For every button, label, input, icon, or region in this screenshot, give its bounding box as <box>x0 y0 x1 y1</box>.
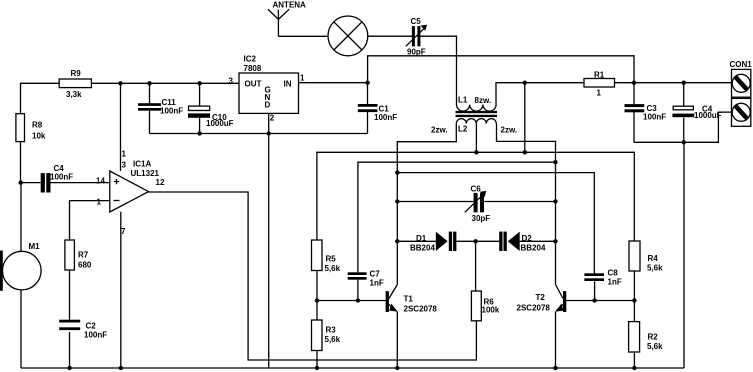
resistor R1 <box>584 70 615 97</box>
wire 7808 pin1 to IN node <box>299 82 368 84</box>
wire opamp top pins <box>120 83 122 171</box>
svg-text:L1: L1 <box>458 95 468 104</box>
resistor R6 <box>471 291 499 321</box>
microphone M1 <box>0 242 41 291</box>
wire R2 bottom to ground <box>633 352 635 368</box>
svg-text:C4: C4 <box>54 164 65 173</box>
svg-text:M1: M1 <box>29 242 41 251</box>
wire L2 tap <box>475 124 477 153</box>
antenna ANTENA <box>268 0 306 36</box>
node varicap right <box>553 239 557 243</box>
wire R9 to 7808 pin3 <box>91 82 239 84</box>
wire antenna to lamp <box>278 35 328 37</box>
svg-text:R5: R5 <box>326 255 337 264</box>
capacitor C11 <box>138 83 183 133</box>
wire opamp inverting input to R7 <box>70 201 110 240</box>
op-amp IC1A UL1321 <box>96 150 165 237</box>
wire R5 to R3 <box>316 271 318 321</box>
svg-text:100nF: 100nF <box>374 113 397 122</box>
capacitor C1 <box>358 83 397 134</box>
node varicap mid <box>473 239 477 243</box>
node C8 bottom <box>592 298 596 302</box>
svg-text:IN: IN <box>284 80 292 89</box>
svg-text:R1: R1 <box>594 70 605 79</box>
wire T1 emitter to ground <box>396 312 398 369</box>
svg-text:8zw.: 8zw. <box>475 96 492 105</box>
svg-text:1: 1 <box>300 74 305 83</box>
transistor T1 2SC2078 <box>386 285 438 314</box>
svg-text:2SC2078: 2SC2078 <box>517 304 551 313</box>
svg-text:100nF: 100nF <box>84 331 107 340</box>
wire 7808 pin2 down to ground rail <box>268 113 270 368</box>
svg-text:BB204: BB204 <box>521 244 546 253</box>
resistor R7 <box>65 240 92 270</box>
svg-text:90pF: 90pF <box>407 47 426 56</box>
wire tank line C6 <box>397 201 555 203</box>
wire opamp output audio feed <box>149 192 477 360</box>
svg-text:1: 1 <box>97 198 102 207</box>
node R1 left branch <box>523 81 527 85</box>
node C7 bottom <box>356 298 360 302</box>
svg-text:L2: L2 <box>458 124 468 133</box>
capacitor C4 electrolytic <box>672 83 721 143</box>
wire T2 collector vertical <box>555 162 557 284</box>
svg-text:100nF: 100nF <box>160 107 183 116</box>
node M1-C4 <box>19 180 23 184</box>
node T1 base branch <box>315 298 319 302</box>
node R3 gnd <box>315 366 319 370</box>
capacitor C2 <box>59 320 107 368</box>
svg-text:100nF: 100nF <box>643 112 666 121</box>
wire cross coupling T1 collector to C8 <box>397 173 594 274</box>
svg-text:5,6k: 5,6k <box>325 264 341 273</box>
svg-text:BB204: BB204 <box>410 244 435 253</box>
svg-text:D2: D2 <box>522 234 533 243</box>
wire ground return CON1 <box>634 112 732 142</box>
wire R3 bottom to ground <box>316 351 318 369</box>
transistor T2 2SC2078 <box>517 285 567 313</box>
svg-text:7808: 7808 <box>244 64 262 73</box>
svg-text:R9: R9 <box>71 69 82 78</box>
capacitor C4 input <box>21 164 110 193</box>
wire opamp pin7 to ground <box>120 212 122 368</box>
capacitor C8 <box>584 269 621 301</box>
wire C5 to L1 top <box>420 36 456 104</box>
node varicap left <box>395 239 399 243</box>
svg-text:IC1A: IC1A <box>133 160 151 169</box>
svg-text:CON1: CON1 <box>730 60 753 69</box>
svg-text:C8: C8 <box>608 269 619 278</box>
ground rail <box>21 367 684 369</box>
wire branch down to oscillator rail <box>524 83 526 153</box>
wire M1 top to C4 node <box>20 183 22 252</box>
diode D2 BB204 <box>499 232 546 253</box>
capacitor C6 trimmer 30pF <box>465 185 490 224</box>
wire T1 base line <box>317 300 386 302</box>
node C10 bottom <box>197 131 201 135</box>
svg-text:14: 14 <box>96 177 105 186</box>
svg-text:R4: R4 <box>648 254 659 263</box>
node R2 gnd <box>632 366 636 370</box>
svg-text:12: 12 <box>156 178 165 187</box>
capacitor C3 <box>625 83 667 143</box>
wire R1 to CON1 <box>615 82 732 84</box>
svg-text:5,6k: 5,6k <box>325 335 341 344</box>
wire L2 right to T2 collector <box>497 124 556 163</box>
node pin7 gnd <box>119 366 123 370</box>
node T2 collector top <box>553 160 557 164</box>
svg-text:R3: R3 <box>326 326 337 335</box>
wire varicap mid to R6 <box>475 241 477 291</box>
svg-text:C5: C5 <box>411 17 422 26</box>
svg-text:IC2: IC2 <box>244 55 257 64</box>
node C6 right <box>553 199 557 203</box>
wire C4 bottom down to ground rail <box>683 142 685 368</box>
wire R7 to C2 <box>69 270 71 320</box>
node T2 base branch <box>632 298 636 302</box>
wire M1 bottom to ground rail <box>20 290 22 368</box>
wire R4 to R2 <box>633 271 635 322</box>
svg-text:2zw.: 2zw. <box>501 125 518 134</box>
svg-text:C7: C7 <box>370 270 381 279</box>
svg-text:1000uF: 1000uF <box>694 111 722 120</box>
svg-text:D1: D1 <box>416 234 427 243</box>
node T2 emitter gnd <box>553 366 557 370</box>
svg-text:10k: 10k <box>32 132 46 141</box>
svg-text:1: 1 <box>597 89 602 98</box>
svg-text:3: 3 <box>229 77 234 86</box>
svg-text:C6: C6 <box>471 185 482 194</box>
node C10 top <box>197 81 201 85</box>
svg-text:1000uF: 1000uF <box>206 119 234 128</box>
wire R8 bottom <box>20 142 22 183</box>
lamp <box>328 16 368 56</box>
svg-text:3,3k: 3,3k <box>66 90 82 99</box>
svg-text:1: 1 <box>122 150 127 159</box>
svg-text:2zw.: 2zw. <box>431 125 448 134</box>
svg-text:R8: R8 <box>32 121 43 130</box>
node C3 top <box>632 81 636 85</box>
inductor L1 <box>457 95 497 111</box>
node branch x525 <box>523 150 527 154</box>
resistor R2 <box>629 322 664 352</box>
svg-text:R7: R7 <box>78 251 89 260</box>
svg-text:UL1321: UL1321 <box>131 169 160 178</box>
svg-text:5,6k: 5,6k <box>647 264 663 273</box>
svg-text:7: 7 <box>121 227 126 236</box>
diode D1 BB204 <box>410 232 456 253</box>
wire L2 left to T1 collector <box>397 124 456 173</box>
resistor R4 <box>629 241 663 273</box>
capacitor C10 electrolytic <box>188 83 234 133</box>
svg-text:2: 2 <box>270 114 275 123</box>
inductor L2 <box>431 119 517 135</box>
node T1 collector top <box>395 170 399 174</box>
node IN-C1 <box>365 81 369 85</box>
svg-text:100k: 100k <box>482 306 500 315</box>
svg-text:D: D <box>265 101 271 110</box>
svg-text:T2: T2 <box>536 293 546 302</box>
wire L1 right up to supply <box>496 83 584 105</box>
resistor R8 <box>16 114 46 142</box>
svg-text:5,6k: 5,6k <box>647 342 663 351</box>
svg-text:30pF: 30pF <box>472 214 491 223</box>
node opamp pins feed <box>118 81 122 85</box>
svg-text:1nF: 1nF <box>608 278 622 287</box>
resistor R5 <box>312 240 341 273</box>
resistor R3 <box>312 320 341 351</box>
svg-text:R2: R2 <box>648 333 659 342</box>
node C4 bottom <box>682 140 686 144</box>
wire R8 top to R9 left <box>21 83 60 113</box>
wire oscillator supply rail y152 <box>317 152 634 241</box>
capacitor C5 trimmer 90pF <box>406 17 427 56</box>
wire T1 collector vertical <box>396 173 398 285</box>
node C6 left <box>395 199 399 203</box>
svg-text:2SC2078: 2SC2078 <box>404 305 438 314</box>
resistor R9 <box>59 69 91 99</box>
node T1 emitter gnd <box>395 366 399 370</box>
svg-text:1nF: 1nF <box>370 279 384 288</box>
svg-text:100nF: 100nF <box>50 173 73 182</box>
wire gnd rail under 7808 <box>150 133 368 135</box>
capacitor C7 <box>348 270 384 301</box>
svg-text:ANTENA: ANTENA <box>273 0 307 9</box>
transformer core <box>456 111 498 113</box>
wire T2 emitter to ground <box>555 312 557 369</box>
node L2 tap <box>474 150 478 154</box>
connector CON1 <box>730 60 753 126</box>
svg-text:T1: T1 <box>404 295 414 304</box>
wire cross coupling T2 collector to C7 <box>358 162 556 272</box>
svg-text:C2: C2 <box>86 322 97 331</box>
svg-text:680: 680 <box>78 261 92 270</box>
regulator IC2 7808 <box>229 55 306 123</box>
wire lamp to C5 <box>368 35 412 37</box>
svg-text:3: 3 <box>122 161 127 170</box>
node C4 top <box>682 81 686 85</box>
node C2 gnd <box>67 366 71 370</box>
wire varicap line <box>397 240 555 242</box>
wire T2 base line <box>566 300 634 302</box>
node 7808 gnd <box>267 131 271 135</box>
wire top rail y56 <box>368 56 634 83</box>
node C11 top <box>147 81 151 85</box>
svg-text:OUT: OUT <box>245 80 262 89</box>
